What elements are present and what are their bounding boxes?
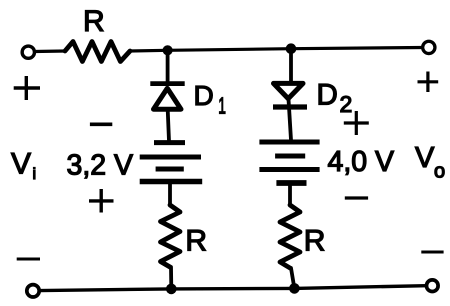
svg-text:o: o: [434, 161, 445, 183]
svg-text:D: D: [317, 78, 338, 111]
svg-text:R: R: [185, 224, 207, 257]
svg-text:V: V: [415, 142, 435, 174]
svg-text:i: i: [33, 166, 37, 183]
svg-text:R: R: [83, 5, 105, 38]
svg-text:4,0 V: 4,0 V: [328, 146, 395, 178]
svg-text:V: V: [11, 148, 31, 181]
svg-text:D: D: [194, 80, 214, 111]
svg-text:R: R: [304, 225, 326, 258]
svg-text:3,2 V: 3,2 V: [67, 149, 134, 181]
svg-text:1: 1: [218, 94, 226, 119]
svg-text:2: 2: [340, 91, 353, 117]
